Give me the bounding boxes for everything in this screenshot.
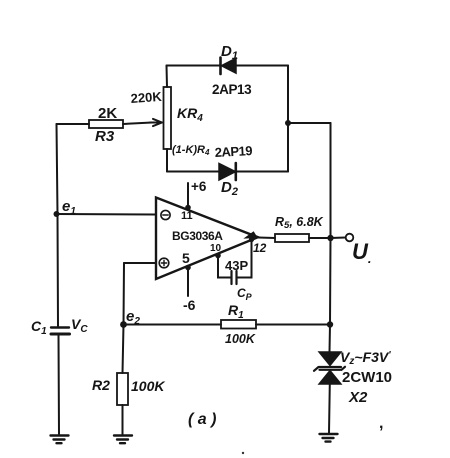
- terminal Uo open circle: [346, 234, 354, 242]
- zener pair D3 back-to-back: [314, 352, 345, 384]
- plus sign inside circle: [161, 260, 166, 265]
- resistor R5: [275, 234, 309, 242]
- svg-text:2K: 2K: [98, 105, 117, 122]
- svg-text:100K: 100K: [131, 378, 165, 394]
- svg-text:220K: 220K: [130, 89, 163, 106]
- ground under C1: [51, 436, 69, 444]
- op-amp non-inverting input circle: [159, 258, 169, 268]
- ground under zener: [320, 434, 338, 442]
- svg-text:100K: 100K: [225, 332, 256, 346]
- wire right rail vertical: [330, 123, 331, 352]
- ground under R2: [114, 436, 132, 444]
- svg-text:2AP19: 2AP19: [214, 143, 252, 160]
- node pin10 on bottom edge: [215, 253, 221, 259]
- wire junction to output terminal: [331, 237, 346, 240]
- wire non-inverting input left: [124, 262, 156, 264]
- node output junction: [327, 235, 333, 241]
- potentiometer KR4 body: [164, 87, 172, 149]
- node pin5 on bottom edge: [185, 265, 191, 271]
- stray dot bottom: [242, 452, 244, 454]
- wire loop bottom rail: [167, 171, 288, 173]
- resistor R2: [117, 373, 128, 405]
- wire tap to right rail: [288, 122, 331, 124]
- wire e1 to inverting input: [57, 213, 157, 216]
- wire +6 supply stub: [187, 183, 189, 207]
- svg-text:R3: R3: [95, 128, 115, 145]
- op-amp U1 triangle: [156, 198, 258, 280]
- node e1 junction: [54, 211, 60, 217]
- svg-text:( a ): ( a ): [188, 411, 216, 428]
- diode D2: [219, 163, 236, 180]
- wire pot bottom to loop bottom rail: [166, 149, 168, 172]
- svg-text:43P: 43P: [225, 258, 248, 273]
- node R1 right junction: [327, 321, 333, 327]
- svg-text:R2: R2: [92, 377, 110, 393]
- resistor R1: [221, 320, 256, 329]
- wire R2 to ground: [122, 405, 124, 434]
- svg-text:Vz~F3V': Vz~F3V': [340, 349, 391, 367]
- arrowhead at op-amp apex: [245, 232, 257, 238]
- node e2 junction: [120, 321, 127, 328]
- wiper arrow of KR4: [150, 119, 162, 126]
- wire R3 to pot wiper with arrow: [123, 123, 152, 125]
- svg-text:12: 12: [253, 241, 267, 255]
- wire Cp right leg: [238, 240, 252, 278]
- node +6 on top edge: [185, 205, 191, 211]
- minus sign inside circle: [163, 214, 168, 216]
- wire R1 run from e2: [124, 324, 222, 326]
- wire output to R5: [258, 237, 275, 240]
- svg-text:2CW10: 2CW10: [342, 369, 392, 386]
- svg-text:R5, 6.8K: R5, 6.8K: [275, 215, 324, 231]
- svg-text:BG3036A: BG3036A: [172, 229, 223, 243]
- diode D1: [221, 58, 237, 75]
- op-amp inverting input circle: [161, 210, 170, 219]
- svg-text:,: ,: [379, 415, 383, 432]
- node Cp to output: [249, 237, 254, 242]
- svg-text:5: 5: [182, 250, 190, 266]
- wire zener to ground: [328, 384, 331, 434]
- wire e2 down to R2: [123, 325, 124, 374]
- wire -6 supply stub: [187, 268, 189, 297]
- wire Cp left leg: [218, 256, 231, 278]
- wire left rail below C1 to ground: [58, 335, 61, 434]
- capacitor C1 plates: [51, 326, 69, 328]
- svg-text:-6: -6: [183, 297, 196, 313]
- wire pot top to loop top rail: [166, 66, 169, 88]
- svg-text:10: 10: [210, 243, 222, 254]
- svg-text:11: 11: [181, 210, 193, 222]
- wire left rail vertical: [57, 124, 59, 326]
- capacitor Cp plates: [232, 271, 237, 284]
- wire down to e2: [123, 263, 126, 325]
- wire R3 left segment: [57, 123, 90, 125]
- wire R5 to junction: [309, 237, 331, 239]
- svg-text:X2: X2: [348, 389, 368, 406]
- svg-text:(1-K)R4: (1-K)R4: [172, 144, 210, 157]
- svg-text:+6: +6: [191, 179, 207, 194]
- svg-text:2AP13: 2AP13: [212, 82, 252, 97]
- wire loop right vertical: [287, 66, 289, 172]
- wire R1 to right junction: [256, 324, 330, 326]
- wire loop top rail: [167, 65, 289, 67]
- resistor R3: [89, 120, 123, 128]
- node loop tap junction: [285, 120, 291, 126]
